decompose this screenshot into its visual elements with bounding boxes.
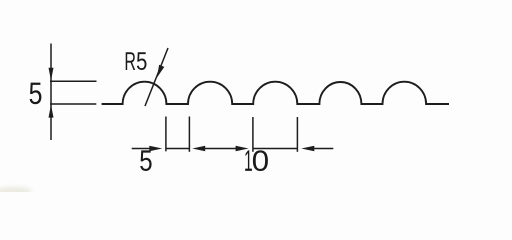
dimension text 5 (left height) <box>30 83 42 105</box>
bottom dimension line: right tail with left arrow at ext d <box>314 148 334 150</box>
bottom dimension line: connector between ext a and ext b <box>166 148 190 150</box>
scalloped profile (5 semicircular bumps R5 on baseline) <box>102 82 449 104</box>
bottom 5 dimension: extension line b <box>188 117 190 152</box>
radius leader line through first bump <box>145 48 168 106</box>
bottom 10 dimension: extension line c <box>252 117 254 152</box>
faint corner smudge bottom-left <box>0 187 32 195</box>
left dimension line (continuous) <box>50 44 52 141</box>
radius label R5 <box>126 52 136 70</box>
dimension text 5 (bottom pitch gap) <box>140 150 151 171</box>
radius leader arrowhead <box>157 65 164 78</box>
bottom 10 dimension: extension line d <box>296 117 298 152</box>
bottom dimension line: connector between ext c and ext d <box>253 148 298 150</box>
down arrowhead at top extension line <box>49 68 54 81</box>
up arrowhead at bottom extension line <box>49 105 54 118</box>
bottom dimension line: shared middle segment with outward arrows <box>204 148 238 150</box>
bottom 5 dimension: extension line a <box>165 117 167 152</box>
left height dimension: bottom extension line <box>50 103 96 105</box>
left height dimension: top extension line <box>50 80 97 82</box>
dimension text 10 (bottom bump width) <box>245 150 252 171</box>
bottom dimension line: left tail with right arrow at ext a <box>132 148 151 150</box>
